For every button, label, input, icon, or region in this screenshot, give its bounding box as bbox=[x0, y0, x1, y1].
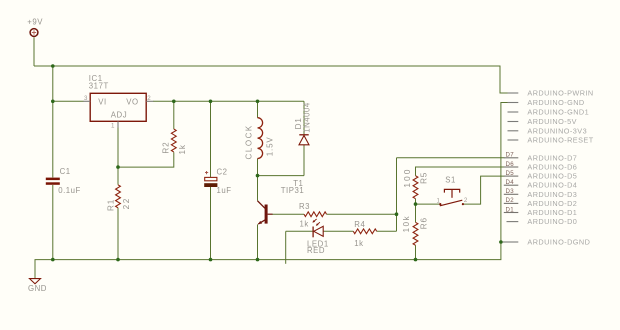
capacitor C1 bbox=[46, 167, 81, 195]
wire R5 bottom bbox=[415, 199, 417, 204]
svg-text:D7: D7 bbox=[506, 152, 515, 159]
svg-text:ARDUINO-PWRIN: ARDUINO-PWRIN bbox=[527, 89, 593, 98]
svg-text:1: 1 bbox=[437, 198, 441, 205]
svg-text:R1: R1 bbox=[107, 199, 116, 211]
wire C1 branch upper bbox=[52, 66, 54, 177]
connector pin ARDUINO-D0 bbox=[507, 217, 578, 226]
wire R5 top bbox=[416, 167, 505, 176]
svg-text:ADJ: ADJ bbox=[111, 111, 127, 120]
wire C1 branch lower bbox=[52, 185, 54, 260]
switch S1 bbox=[437, 175, 468, 206]
node D4 label bbox=[504, 179, 578, 190]
svg-text:D6: D6 bbox=[506, 161, 515, 168]
svg-text:10k: 10k bbox=[402, 215, 411, 233]
wire R4 right bbox=[377, 230, 397, 232]
svg-text:1k: 1k bbox=[354, 239, 363, 248]
wire R6 top bbox=[415, 204, 417, 222]
svg-text:1N4004: 1N4004 bbox=[303, 102, 312, 133]
svg-text:ARDUINO-D5: ARDUINO-D5 bbox=[527, 172, 577, 181]
pin 1 IC1 ADJ bbox=[111, 121, 118, 129]
connector pin ARDUINO-5V bbox=[508, 117, 577, 126]
svg-text:ARDUINO-DGND: ARDUINO-DGND bbox=[527, 238, 590, 247]
wire R6 bottom bbox=[415, 245, 417, 259]
junction dot R5 R6 bbox=[414, 202, 418, 206]
svg-text:D4: D4 bbox=[506, 179, 515, 186]
svg-text:R6: R6 bbox=[420, 217, 429, 229]
wire top rail bbox=[34, 66, 508, 93]
resistor R1 bbox=[107, 185, 132, 211]
junction dot L1 bottom bbox=[256, 174, 260, 178]
svg-text:R4: R4 bbox=[354, 220, 365, 229]
wire LED left bbox=[286, 230, 313, 232]
junction dot rail R1 bbox=[116, 258, 120, 262]
connector pin ARDUINO-GND1 bbox=[508, 108, 590, 117]
wire base bbox=[272, 213, 304, 215]
junction dot rail R6 bbox=[414, 258, 418, 262]
svg-text:1k: 1k bbox=[178, 144, 187, 154]
svg-text:D1: D1 bbox=[294, 117, 303, 129]
wire collector bbox=[257, 176, 259, 201]
junction dot DGND bbox=[499, 240, 503, 244]
wire C2 bottom bbox=[210, 187, 212, 260]
svg-text:1.5V: 1.5V bbox=[265, 137, 274, 157]
wire D1 bottom bbox=[303, 145, 305, 176]
wire GND column bbox=[35, 103, 508, 279]
connector pin ARDUINO-RESET bbox=[508, 136, 594, 145]
svg-text:ARDUINO-D4: ARDUINO-D4 bbox=[527, 181, 577, 190]
connector pin ARDUINO-PWRIN bbox=[508, 89, 594, 98]
svg-text:ARDUINO-D2: ARDUINO-D2 bbox=[527, 199, 577, 208]
svg-text:0.1uF: 0.1uF bbox=[58, 186, 81, 195]
svg-text:+9V: +9V bbox=[27, 18, 43, 27]
svg-text:ARDUINO-D0: ARDUINO-D0 bbox=[527, 217, 577, 226]
svg-text:RED: RED bbox=[307, 246, 325, 255]
svg-text:C1: C1 bbox=[60, 167, 71, 176]
svg-text:D1: D1 bbox=[506, 206, 515, 213]
capacitor C2 bbox=[204, 168, 231, 196]
junction dot rail C2 bbox=[209, 258, 213, 262]
svg-text:R3: R3 bbox=[299, 202, 310, 211]
svg-text:ARDUINO-5V: ARDUINO-5V bbox=[527, 117, 577, 126]
wire LED to R4 bbox=[323, 230, 353, 232]
svg-text:TIP31: TIP31 bbox=[281, 186, 305, 195]
inductor L1 CLOCK bbox=[244, 118, 274, 160]
wire +9V drop bbox=[33, 37, 35, 66]
resistor R6 bbox=[402, 215, 428, 245]
svg-text:317T: 317T bbox=[89, 82, 109, 91]
wire D1 top bbox=[303, 101, 305, 134]
resistor R5 bbox=[402, 168, 428, 199]
node D1 label bbox=[504, 206, 578, 217]
svg-text:CLOCK: CLOCK bbox=[244, 124, 253, 159]
svg-text:S1: S1 bbox=[445, 175, 456, 184]
junction dot R2 top bbox=[172, 100, 176, 104]
transistor T1 bbox=[258, 179, 305, 224]
node D2 label bbox=[504, 197, 578, 208]
wire ADJ drop bbox=[117, 128, 119, 168]
svg-text:ARDUINO-D6: ARDUINO-D6 bbox=[527, 163, 577, 172]
wire VO bbox=[153, 100, 304, 102]
connector pin ARDUINO-DGND bbox=[503, 238, 591, 247]
junction dot rail C1 bbox=[51, 258, 55, 262]
svg-text:C2: C2 bbox=[217, 168, 228, 177]
svg-text:ARDUINO-D3: ARDUINO-D3 bbox=[527, 190, 577, 199]
ground symbol GND bbox=[28, 279, 47, 293]
diode D1 bbox=[294, 102, 312, 145]
junction dot C2 top bbox=[209, 100, 213, 104]
wire ADJ row bbox=[118, 152, 174, 167]
svg-text:ARDUINO-D7: ARDUINO-D7 bbox=[527, 153, 577, 162]
svg-text:100: 100 bbox=[402, 168, 412, 188]
svg-text:D5: D5 bbox=[506, 170, 515, 177]
node D6 label bbox=[504, 161, 578, 172]
wire R1 bottom bbox=[117, 208, 119, 260]
svg-text:ARDUNINO-3V3: ARDUNINO-3V3 bbox=[527, 126, 587, 135]
junction dot rail emitter bbox=[256, 258, 260, 262]
resistor R3 bbox=[299, 202, 327, 229]
wire node vertical bbox=[396, 158, 398, 232]
svg-text:1uF: 1uF bbox=[217, 186, 232, 195]
pin 2 IC1 bbox=[146, 95, 153, 102]
svg-text:ARDUINO-GND1: ARDUINO-GND1 bbox=[527, 108, 589, 117]
node D7 label bbox=[504, 152, 578, 163]
svg-text:ARDUINO-RESET: ARDUINO-RESET bbox=[527, 136, 593, 145]
wire R1 leads bbox=[117, 167, 119, 185]
svg-text:2: 2 bbox=[147, 95, 151, 102]
svg-text:1k: 1k bbox=[300, 219, 309, 228]
svg-text:2: 2 bbox=[464, 197, 468, 204]
svg-text:R5: R5 bbox=[420, 172, 429, 184]
wire C2 top bbox=[210, 101, 212, 177]
wire R3 to node bbox=[327, 213, 397, 215]
op-amp IC1 regulator box bbox=[89, 74, 146, 121]
wire L1 top bbox=[257, 101, 259, 117]
svg-text:D2: D2 bbox=[506, 197, 515, 204]
wire R2 top bbox=[173, 101, 175, 129]
wire clock bottom row bbox=[258, 175, 305, 177]
junction dot top rail bbox=[51, 64, 55, 68]
node D3 label bbox=[504, 188, 578, 199]
wire LED drop bbox=[285, 231, 287, 263]
resistor R2 bbox=[162, 129, 188, 155]
connector pin ARDUNINO-3V3 bbox=[508, 126, 588, 135]
svg-text:3: 3 bbox=[84, 95, 88, 102]
wire VI bbox=[53, 100, 84, 102]
LED LED1 bbox=[307, 219, 329, 255]
wire S1 right to D5 bbox=[464, 176, 505, 204]
wire S1 left bbox=[416, 203, 440, 205]
resistor R4 bbox=[353, 220, 376, 248]
wire D7 bbox=[397, 157, 505, 159]
junction dot base node bbox=[395, 212, 399, 216]
pin 3 IC1 bbox=[83, 95, 90, 102]
supply +9V symbol bbox=[27, 18, 43, 37]
svg-text:1: 1 bbox=[111, 122, 115, 129]
svg-text:R2: R2 bbox=[162, 142, 171, 154]
svg-text:GND: GND bbox=[28, 284, 47, 293]
svg-text:22: 22 bbox=[122, 197, 131, 209]
wire emitter bbox=[257, 224, 259, 259]
junction dot ADJ bbox=[116, 165, 120, 169]
connector pin ARDUINO-GND bbox=[508, 98, 585, 107]
svg-text:ARDUINO-D1: ARDUINO-D1 bbox=[527, 208, 577, 217]
svg-text:D3: D3 bbox=[506, 188, 515, 195]
svg-text:VO: VO bbox=[126, 97, 138, 106]
svg-text:VI: VI bbox=[98, 97, 106, 106]
junction dot VI bbox=[51, 100, 55, 104]
node D5 label bbox=[504, 170, 578, 181]
wire L1 bottom bbox=[257, 159, 259, 176]
junction dot L1 top bbox=[256, 100, 260, 104]
svg-text:ARDUINO-GND: ARDUINO-GND bbox=[527, 98, 584, 107]
